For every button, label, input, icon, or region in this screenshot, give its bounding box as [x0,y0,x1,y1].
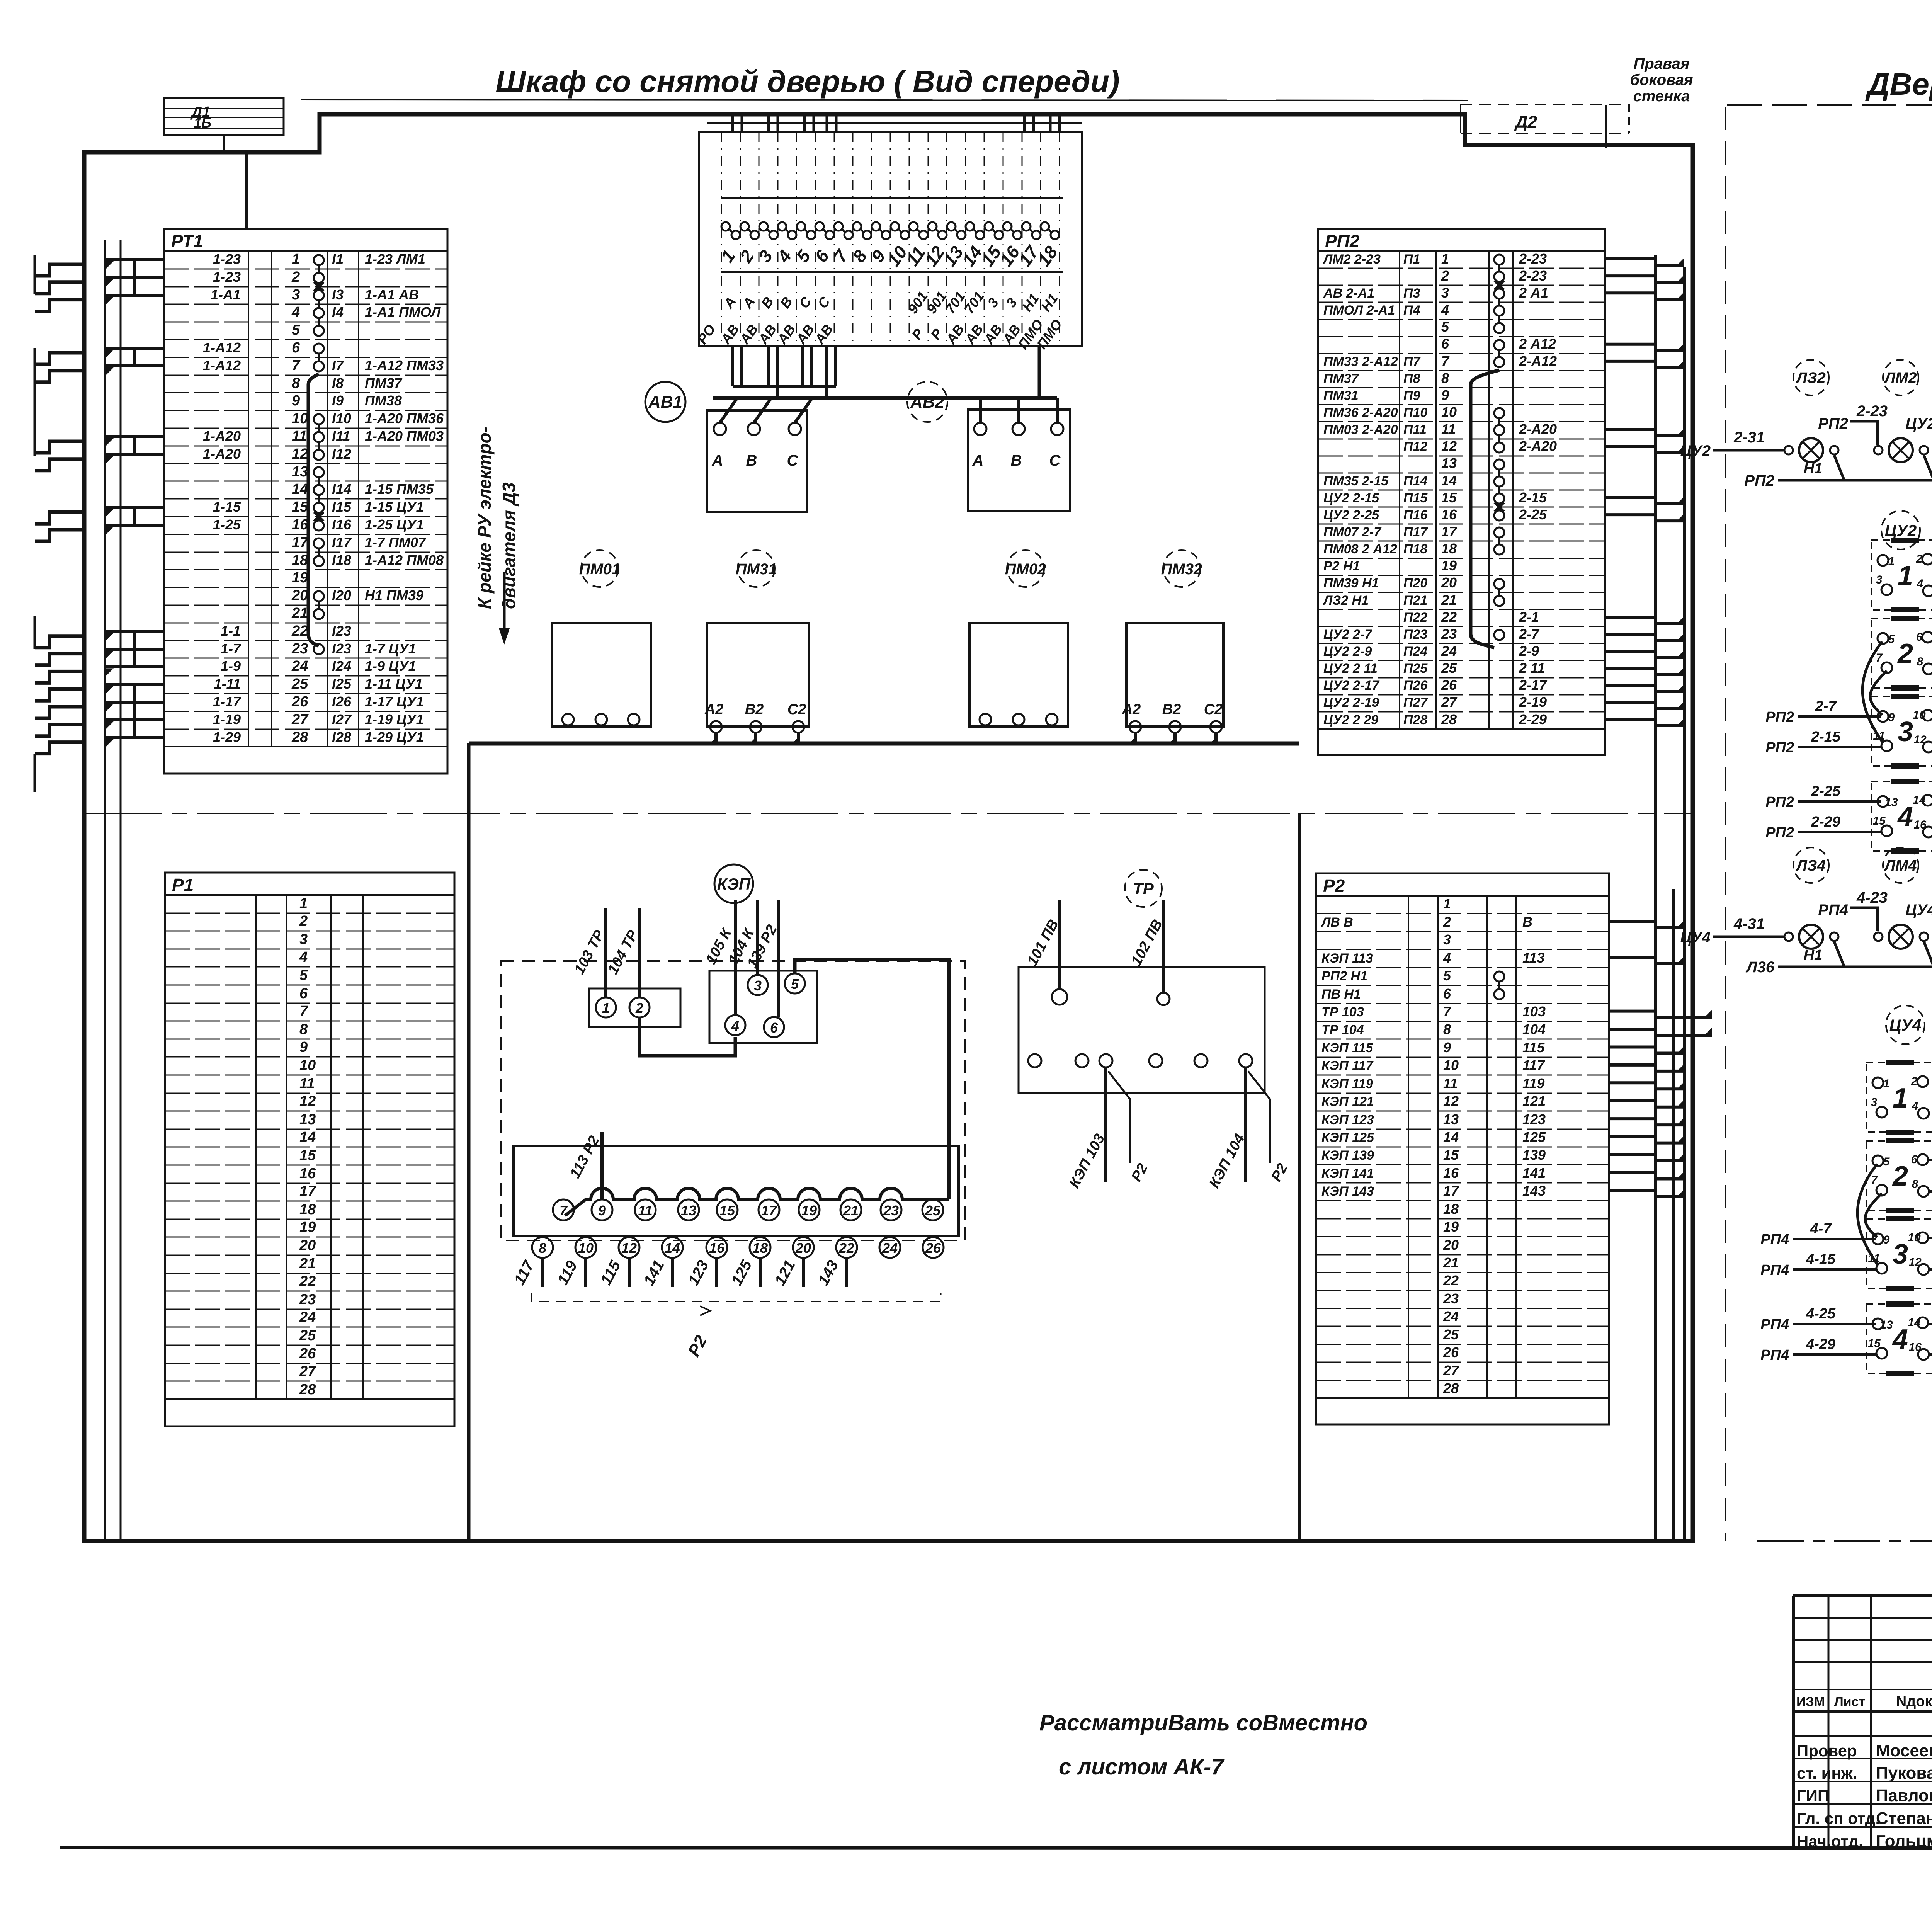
feeder bundle to AB1/AB2 [713,396,1057,400]
ЦУ2 section 2 [1871,618,1932,688]
svg-text:ПМ01: ПМ01 [579,561,621,578]
svg-text:АВ1: АВ1 [648,393,682,412]
svg-text:17: 17 [1441,524,1458,539]
label PM32 (dashed circle) [1163,550,1200,587]
strip outgoing stubs below [731,346,734,386]
signal lamp group at y=1165 lamp1 [1799,438,1823,462]
ЦУ4 lead 4-31 [1929,1353,1932,1356]
terminal circle РТ1 pin 4 [314,308,324,318]
svg-text:ПВ Н1: ПВ Н1 [1321,987,1361,1002]
KEP strip contact 12 [619,1237,639,1258]
svg-text:13: 13 [1880,1318,1893,1331]
lamp position ЛЗ4 (dashed circle) [1793,847,1829,883]
svg-text:1-11: 1-11 [214,676,241,692]
svg-text:ПМ03 2-А20: ПМ03 2-А20 [1323,422,1398,437]
svg-text:ПМ07 2-7: ПМ07 2-7 [1323,525,1382,539]
transformer TP block [1019,967,1265,1093]
svg-text:20: 20 [1443,1237,1459,1253]
terminal block table РТ1 [164,229,447,774]
svg-text:П18: П18 [1403,542,1427,556]
svg-text:28: 28 [1441,711,1457,727]
svg-text:16: 16 [1913,818,1927,831]
terminal strip column line [759,132,760,346]
svg-text:18: 18 [292,552,308,568]
svg-text:А: А [712,452,723,469]
svg-text:14: 14 [292,481,308,497]
svg-text:26: 26 [291,694,308,710]
svg-text:5: 5 [292,322,300,338]
terminal circle РП2 pin 21 [1494,596,1504,606]
label TP (dashed circle) [1125,870,1162,907]
svg-text:Правая: Правая [1634,55,1690,72]
svg-text:ЦУ2 2 11: ЦУ2 2 11 [1323,661,1378,676]
ЦУ4 section 4 [1866,1304,1932,1373]
strip feeder bundle above [731,114,734,132]
svg-text:ПМ31: ПМ31 [736,561,777,578]
svg-text:6: 6 [1911,1153,1918,1166]
svg-text:ПМ08 2 А12: ПМ08 2 А12 [1323,542,1397,556]
jumper link РП2 11-12 [1498,435,1500,442]
svg-text:11: 11 [638,1203,652,1218]
door heading underline / door top edge [1727,104,1932,106]
svg-text:П9: П9 [1403,388,1420,403]
terminal circle РТ1 pin 17 [314,538,324,548]
svg-text:2: 2 [1897,638,1913,669]
svg-text:1-15 ПМ35: 1-15 ПМ35 [365,481,434,497]
svg-text:2-23: 2-23 [1519,268,1547,284]
KEP strip contact 9 [592,1199,612,1220]
svg-text:7: 7 [292,357,301,374]
svg-text:П7: П7 [1403,354,1421,369]
svg-text:5: 5 [1441,319,1449,335]
svg-text:2: 2 [291,269,300,285]
wire 103 TP [604,908,607,997]
svg-text:115: 115 [1522,1039,1545,1055]
svg-text:2-25: 2-25 [1519,507,1547,522]
internal jumper wire RT1 pin7 to pin23 [308,374,319,646]
jumper link РТ1 2-3 [318,283,320,291]
svg-text:П20: П20 [1403,576,1427,590]
strip terminal pair 12 [928,222,937,231]
svg-text:26: 26 [925,1240,941,1256]
ЦУ2 section 1 [1871,540,1932,610]
svg-text:16: 16 [1908,1341,1922,1354]
svg-text:27: 27 [1441,694,1458,710]
svg-text:15: 15 [292,499,308,515]
svg-text:24: 24 [291,658,308,674]
svg-text:1-А12 ПМ08: 1-А12 ПМ08 [365,552,444,568]
jumper link РП2 10-11 [1498,418,1500,425]
jumper link РТ1 20-21 [318,601,320,609]
svg-text:2 А12: 2 А12 [1519,336,1556,352]
terminal block table Р2 [1316,873,1609,1424]
terminal strip column line [796,132,797,346]
svg-text:12: 12 [299,1093,316,1109]
svg-text:13: 13 [292,464,308,480]
jumper link РП2 14-15 [1498,487,1500,493]
svg-text:16: 16 [292,517,308,533]
strip terminal pair 5 [797,222,805,231]
svg-text:П1: П1 [1403,252,1420,267]
svg-text:стенка: стенка [1633,88,1690,105]
terminal circle РТ1 pin 10 [314,414,324,424]
svg-text:20: 20 [1441,575,1457,590]
svg-text:1: 1 [299,895,308,912]
svg-text:4: 4 [1443,950,1451,966]
svg-text:2-9: 2-9 [1519,643,1539,659]
wires PM31 to bus [714,733,718,743]
cable group bracket P2 [531,1293,941,1301]
svg-text:27: 27 [299,1363,316,1380]
svg-text:С: С [787,452,799,469]
svg-text:6: 6 [1441,336,1449,352]
lamp position ЛМ2 (dashed circle) [1883,360,1918,395]
cabinet inner partition vertical right [1298,813,1301,1541]
jumper link РТ1 10-11 [318,424,320,432]
terminal circle РП2 pin 5 [1494,323,1504,333]
bottom return wire [1778,455,1932,480]
KEP strip contact 24 [879,1237,900,1258]
KEP contact 5 [785,973,805,994]
svg-text:28: 28 [299,1381,316,1398]
TP lead KEP 104 P2 [1244,1067,1247,1182]
svg-text:2-А20: 2-А20 [1519,438,1557,454]
svg-text:Л36: Л36 [1745,959,1775,976]
svg-text:КЭП 121: КЭП 121 [1321,1094,1374,1109]
svg-text:В2: В2 [745,701,764,718]
strip terminal pair 6 [815,222,824,231]
TP lead KEP 103 P2 [1104,1067,1107,1182]
terminal strip column line [777,132,779,346]
svg-text:П12: П12 [1403,439,1427,454]
svg-text:5: 5 [299,967,308,983]
svg-text:1: 1 [1893,1083,1908,1114]
svg-text:14: 14 [1908,1316,1921,1329]
jumper link РП2 2-3 [1498,282,1500,289]
jumper link РП2 1-2 [1498,265,1500,272]
svg-text:С2: С2 [1204,701,1223,718]
ЦУ4 lead 4-27 [1929,1323,1932,1325]
svg-text:1: 1 [1898,560,1913,591]
svg-text:І7: І7 [332,357,344,373]
terminal circle Р2 pin 6 [1494,989,1504,999]
TP output terminals [1028,1054,1041,1067]
right side wall boundary line [1605,105,1607,148]
svg-text:І23: І23 [332,641,351,657]
terminal circle РП2 pin 17 [1494,527,1504,538]
jumper link РТ1 4-5 [318,318,320,326]
KEP contact 3 [748,975,768,995]
svg-text:КЭП 117: КЭП 117 [1321,1058,1374,1073]
svg-text:8: 8 [299,1021,308,1038]
cabinet inner partition vertical left / riser wire [467,743,471,1541]
svg-text:1-25 ЦУ1: 1-25 ЦУ1 [365,517,424,532]
signal lamp group at y=2424 lamp1 [1799,925,1823,949]
KEP terminal block 1-2 [589,988,680,1027]
jumper link РП2 3-4 [1498,299,1500,306]
svg-text:Нач.отд.: Нач.отд. [1797,1832,1863,1850]
svg-text:10: 10 [1913,709,1926,721]
wire 105 K [734,900,737,1015]
svg-text:ТР: ТР [1133,880,1154,898]
KEP connector strip [514,1146,959,1236]
ЦУ4 lead 4-11 [1929,1159,1932,1161]
left wiring duct line 2 [120,240,122,1541]
svg-text:11: 11 [292,428,307,444]
terminal circle РП2 pin 4 [1494,306,1504,316]
svg-text:2-23: 2-23 [1856,403,1888,420]
svg-text:4-7: 4-7 [1810,1221,1832,1237]
KEP strip contact 11 [635,1199,656,1220]
svg-text:ЦУ2 2-25: ЦУ2 2-25 [1323,508,1379,522]
svg-text:АВ2: АВ2 [910,393,945,412]
svg-text:В2: В2 [1162,701,1181,718]
svg-text:4: 4 [1892,1324,1908,1355]
svg-text:І25: І25 [332,676,352,692]
svg-text:1: 1 [602,1000,610,1016]
svg-text:1-23 ЛМ1: 1-23 ЛМ1 [365,251,425,267]
svg-text:ЛВ В: ЛВ В [1320,915,1353,930]
svg-text:17: 17 [761,1203,777,1218]
svg-text:10: 10 [1908,1231,1921,1244]
strip terminal pair 11 [909,222,918,231]
KEP strip contact 7 [553,1199,574,1220]
terminal circle РТ1 pin 20 [314,591,324,601]
svg-text:1-А1: 1-А1 [211,287,241,303]
svg-text:6: 6 [292,340,300,356]
ЦУ2 section 4 [1871,781,1932,851]
svg-text:П8: П8 [1403,371,1420,386]
jumper link РТ1 14-15 [318,495,320,503]
svg-text:1-15 ЦУ1: 1-15 ЦУ1 [365,499,424,515]
terminal circle РП2 pin 1 [1494,255,1504,265]
svg-text:20: 20 [299,1237,316,1254]
terminal block table РП2 [1318,229,1605,755]
label AB1 (dashed circle) [645,382,685,422]
svg-text:ЦУ2: ЦУ2 [1885,521,1917,539]
terminal circle РТ1 pin 13 [314,467,324,477]
KEP contact 4 [725,1015,745,1035]
svg-text:24: 24 [1443,1308,1459,1324]
svg-text:7: 7 [299,1003,308,1019]
ЦУ4 lead 4-19 [1929,1190,1932,1193]
svg-text:РП2 Н1: РП2 Н1 [1321,969,1367,983]
svg-text:Р2: Р2 [1323,876,1345,896]
svg-text:9: 9 [299,1039,308,1055]
svg-text:ПМ39 Н1: ПМ39 Н1 [1323,576,1379,590]
svg-text:6: 6 [1443,986,1451,1002]
svg-text:23: 23 [1443,1291,1459,1307]
svg-text:РассматриВать соВместно: РассматриВать соВместно [1039,1710,1367,1735]
terminal strip column line [946,132,947,346]
svg-text:22: 22 [1441,609,1457,625]
bottom return wire [1778,942,1932,967]
svg-text:І23: І23 [332,623,351,639]
svg-text:4-25: 4-25 [1806,1306,1836,1322]
svg-text:КЭП 139: КЭП 139 [1321,1148,1374,1163]
svg-text:2-29: 2-29 [1811,814,1840,830]
svg-text:Р2 Н1: Р2 Н1 [1323,559,1360,573]
svg-text:10: 10 [1441,404,1457,420]
strip terminal pair 4 [778,222,786,231]
bus taps R2 [1609,921,1684,927]
svg-text:7: 7 [1871,1174,1878,1187]
terminal circle РТ1 pin 18 [314,556,324,566]
svg-text:17: 17 [1443,1183,1459,1199]
jumper link РП2 20-21 [1498,589,1500,596]
bus taps RP2 [1605,259,1684,265]
svg-text:1-29 ЦУ1: 1-29 ЦУ1 [365,729,424,745]
svg-text:КЭП 123: КЭП 123 [1321,1113,1374,1127]
svg-text:1-А20: 1-А20 [203,446,241,462]
jumper wire over odd contacts [565,1188,949,1216]
svg-text:3: 3 [292,287,300,303]
svg-text:25: 25 [1443,1327,1459,1342]
jumper link РП2 13-14 [1498,470,1500,476]
svg-text:А2: А2 [704,701,724,718]
svg-text:3: 3 [1441,285,1449,301]
svg-text:7: 7 [1441,353,1450,369]
svg-text:2-7: 2-7 [1815,698,1837,715]
svg-text:ЦУ2 2-15: ЦУ2 2-15 [1323,491,1379,505]
ЦУ4 lead 4-9 [1929,1237,1932,1239]
svg-text:КЭП 115: КЭП 115 [1321,1041,1374,1055]
svg-text:П22: П22 [1403,610,1427,625]
svg-text:2-А20: 2-А20 [1519,421,1557,437]
strip right outgoing wire [1038,346,1041,398]
strip terminal pair 9 [872,222,880,231]
svg-text:2-19: 2-19 [1519,694,1547,710]
KEP contact 2 [629,997,650,1017]
svg-text:1-А20 ПМ03: 1-А20 ПМ03 [365,428,444,444]
svg-text:2-25: 2-25 [1811,783,1841,800]
label KEP (dashed circle) [714,864,753,903]
KEP strip contact 18 [750,1237,770,1258]
KEP dashed enclosure [501,961,965,1240]
svg-text:17: 17 [299,1183,316,1199]
svg-text:18: 18 [299,1201,316,1218]
svg-text:2: 2 [1916,553,1923,565]
lamp position ЛЗ2 (dashed circle) [1793,360,1829,395]
svg-text:1-7 ЦУ1: 1-7 ЦУ1 [365,641,416,657]
svg-text:1-29: 1-29 [213,729,241,745]
svg-text:9: 9 [598,1203,606,1218]
svg-text:С: С [1049,452,1061,469]
svg-text:ПМ02: ПМ02 [1005,561,1046,578]
KEP strip contact 8 [532,1237,553,1258]
terminal block table Р1 [165,873,454,1426]
ЦУ2 section 3 [1871,696,1932,766]
svg-text:26: 26 [1443,1344,1459,1360]
svg-text:ЛЗ4: ЛЗ4 [1795,857,1825,874]
KEP strip contact 14 [662,1237,683,1258]
terminal strip column line [1003,132,1004,346]
incoming wire [1713,449,1784,452]
jumper 1 [1850,421,1878,445]
svg-text:В: В [1522,914,1532,930]
label AB2 (dashed circle) [907,382,947,422]
terminal circle РП2 pin 18 [1494,544,1504,555]
svg-text:А2: А2 [1122,701,1141,718]
wire 104 TP [638,908,641,997]
strip terminal pair 1 [721,222,730,231]
svg-text:19: 19 [299,1219,316,1235]
svg-text:РП4: РП4 [1760,1232,1789,1248]
svg-text:І16: І16 [332,517,352,532]
terminal strip column line [1022,132,1023,346]
wire 139 P2 [777,900,780,1017]
terminal circle РТ1 pin 16 [314,521,324,531]
svg-text:7: 7 [1876,652,1883,664]
svg-text:7: 7 [1443,1004,1452,1019]
svg-text:2-29: 2-29 [1519,711,1547,727]
svg-text:14: 14 [1443,1129,1459,1145]
internal jumper wire RP2 pin7 to pin23 [1471,370,1499,648]
KEP terminal block 3-6 [709,971,817,1043]
terminal circle РП2 pin 13 [1494,459,1504,470]
lamp position ЛМ4 (dashed circle) [1883,847,1918,883]
svg-text:15: 15 [299,1147,316,1164]
KEP strip contact 20 [793,1237,814,1258]
svg-text:12: 12 [292,446,308,462]
svg-text:11: 11 [1443,1075,1458,1091]
terminal circle Р2 pin 5 [1494,971,1504,982]
svg-text:2-15: 2-15 [1811,729,1841,745]
svg-text:1-25: 1-25 [213,517,241,532]
svg-text:1-23: 1-23 [213,269,241,285]
svg-text:Лист: Лист [1834,1694,1865,1709]
svg-text:17: 17 [292,534,309,551]
svg-text:П23: П23 [1403,627,1427,642]
svg-text:19: 19 [1441,558,1457,573]
KEP strip contact 19 [799,1199,820,1220]
svg-text:16: 16 [1443,1165,1459,1181]
svg-text:2: 2 [1443,914,1451,930]
svg-text:ДВерь шкафа ( Вид сзади): ДВерь шкафа ( Вид сзади) [1865,67,1932,101]
ЦУ4 section 3 [1866,1219,1932,1288]
svg-text:12: 12 [621,1240,637,1256]
svg-text:3: 3 [1443,932,1451,948]
svg-text:КЭП 125: КЭП 125 [1321,1130,1374,1145]
right bus vertical 3 [1672,889,1675,1541]
svg-text:4: 4 [731,1018,739,1034]
svg-text:ПМ37: ПМ37 [1323,371,1359,386]
svg-text:25: 25 [925,1203,941,1218]
jumper link Р2 5-6 [1498,982,1500,989]
svg-text:І3: І3 [332,287,344,303]
svg-text:10: 10 [1443,1057,1459,1073]
svg-text:8: 8 [292,375,300,391]
KEP strip contact 17 [759,1199,779,1220]
terminal circle РП2 pin 6 [1494,340,1504,350]
svg-text:4: 4 [1441,302,1449,318]
svg-text:23: 23 [291,641,308,657]
svg-text:П17: П17 [1403,525,1428,539]
svg-text:ЦУ2: ЦУ2 [1906,415,1932,432]
svg-text:П15: П15 [1403,491,1428,505]
svg-text:14: 14 [1441,473,1457,488]
svg-text:ПМ36 2-А20: ПМ36 2-А20 [1323,405,1398,420]
svg-text:2: 2 [299,913,308,929]
svg-text:ЛМ2: ЛМ2 [1883,369,1917,386]
svg-text:ГИП: ГИП [1797,1786,1829,1805]
svg-text:РП2: РП2 [1744,472,1774,489]
svg-text:5: 5 [1443,968,1451,983]
svg-text:РП4: РП4 [1760,1347,1789,1363]
svg-text:1-А1 ПМОЛ: 1-А1 ПМОЛ [365,304,441,320]
svg-text:2-1: 2-1 [1519,609,1539,625]
svg-text:3: 3 [754,978,762,994]
